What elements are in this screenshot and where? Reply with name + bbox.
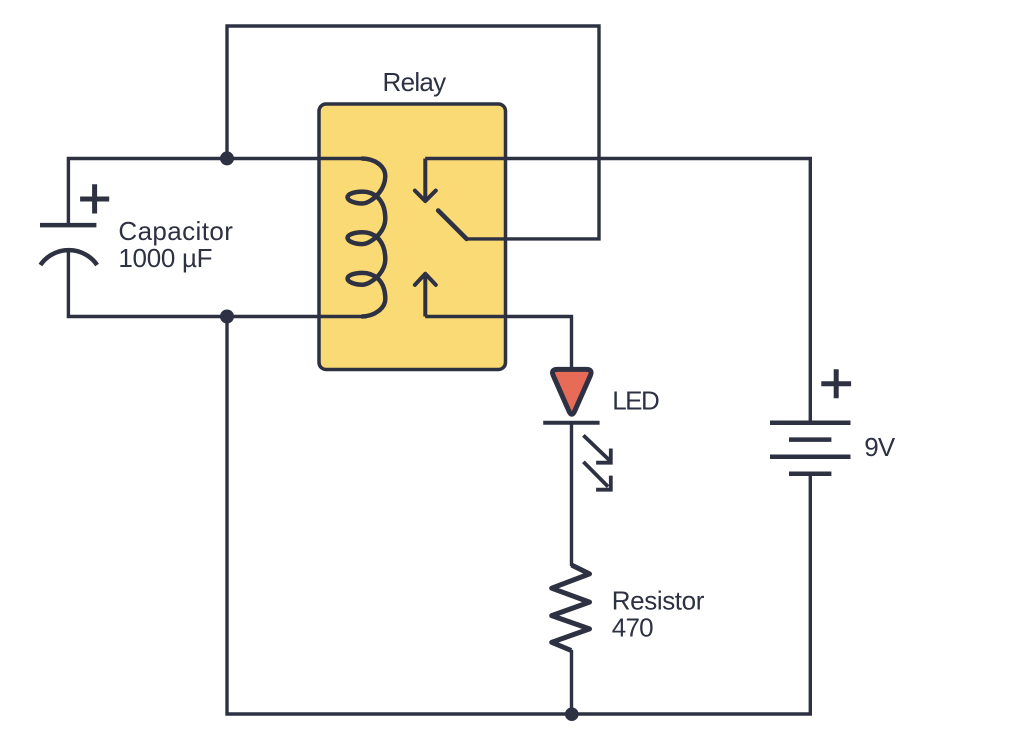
wire capacitor top rail bbox=[68, 159, 361, 226]
svg-text:Resistor: Resistor bbox=[612, 586, 705, 616]
wire battery bottom rail bbox=[227, 317, 810, 715]
junction node resistor to rail bbox=[565, 707, 579, 721]
battery plate long 3 bbox=[770, 455, 851, 460]
svg-text:Relay: Relay bbox=[383, 67, 447, 97]
svg-text:1000 µF: 1000 µF bbox=[118, 243, 212, 273]
LED light arrow 1 head bbox=[596, 449, 613, 463]
capacitor C1 positive plate bbox=[40, 223, 96, 228]
LED cathode bar bbox=[543, 421, 599, 425]
svg-text:470: 470 bbox=[612, 613, 653, 643]
svg-text:9V: 9V bbox=[864, 432, 896, 462]
capacitor plus sign bbox=[80, 184, 109, 213]
battery plate short bottom bbox=[789, 471, 831, 476]
wire top feedback loop bbox=[227, 26, 599, 239]
battery BT1 plate long top bbox=[770, 420, 851, 425]
wire switch to LED bbox=[425, 317, 571, 371]
capacitor C1 curved plate bbox=[40, 250, 97, 265]
switch blade bbox=[438, 211, 466, 239]
switch NO arrowhead bbox=[415, 274, 436, 285]
relay coil L1 bbox=[348, 159, 386, 317]
battery plus sign bbox=[821, 369, 851, 398]
wire LED to resistor bbox=[570, 423, 573, 566]
switch NC arrowhead bbox=[415, 191, 436, 202]
switch NO contact wire bbox=[423, 274, 427, 317]
junction node top left bbox=[220, 151, 234, 165]
LED light arrow 2 head bbox=[596, 476, 613, 490]
LED D1 triangle bbox=[553, 369, 592, 414]
resistor R1 zigzag bbox=[552, 565, 590, 651]
svg-text:Capacitor: Capacitor bbox=[118, 216, 233, 246]
battery plate short 2 bbox=[789, 437, 831, 442]
LED light arrow 1 shaft bbox=[583, 435, 610, 461]
LED light arrow 2 shaft bbox=[583, 462, 608, 487]
wire resistor to bottom rail bbox=[570, 650, 573, 714]
switch NC contact wire bbox=[423, 159, 427, 201]
wire capacitor bottom rail bbox=[68, 250, 361, 316]
svg-text:LED: LED bbox=[612, 386, 659, 416]
wire switch to battery top rail bbox=[425, 159, 810, 423]
junction node bottom left bbox=[220, 310, 234, 324]
relay body bbox=[319, 104, 506, 370]
